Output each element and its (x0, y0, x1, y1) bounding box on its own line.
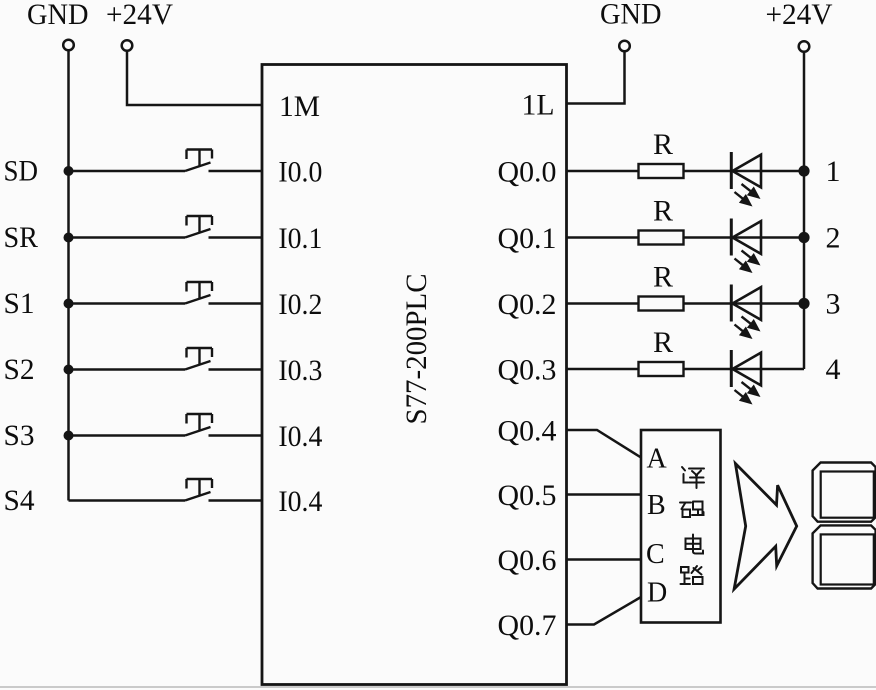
svg-text:1: 1 (826, 155, 841, 188)
label SD (4, 155, 39, 188)
svg-text:Q0.5: Q0.5 (498, 479, 557, 512)
svg-text:S2: S2 (4, 353, 35, 386)
svg-text:S3: S3 (4, 419, 35, 452)
pin label I0.3 (278, 354, 322, 387)
pin label Q0.2 (498, 288, 557, 321)
junction node on +24V rail (row 1) (798, 165, 809, 176)
pin label 1L (522, 89, 555, 122)
svg-text:Q0.7: Q0.7 (498, 609, 557, 642)
decoder label 码 (code) (680, 502, 704, 518)
pin label Q0.1 (498, 222, 557, 255)
resistor R (row 2) (639, 231, 684, 245)
pushbutton S1 (N.O. momentary) (185, 282, 212, 304)
wire SD to pushbutton (69, 170, 186, 173)
block arrow (to display) (734, 464, 797, 590)
wire S3 to pushbutton (69, 434, 186, 437)
svg-text:I0.0: I0.0 (278, 156, 322, 189)
wire S4 to pushbutton (69, 499, 186, 502)
net label 1 (826, 155, 841, 188)
label +24V (left) (106, 0, 173, 31)
svg-text:I0.1: I0.1 (278, 222, 322, 255)
svg-text:+24V: +24V (106, 0, 173, 31)
net label 4 (826, 353, 841, 386)
wire pushbutton to pin I0.4 (209, 499, 263, 502)
terminal +24V left (122, 40, 133, 51)
svg-text:2: 2 (826, 222, 841, 255)
pin label 1M (279, 90, 320, 123)
label S1 (4, 287, 35, 320)
wire resistor through LED to +24V rail (row 2) (684, 236, 805, 239)
svg-text:I0.4: I0.4 (278, 485, 322, 518)
svg-text:3: 3 (826, 288, 841, 321)
resistor R (row 3) (639, 297, 684, 311)
wire pin Q0.6 to decoder input C (567, 558, 642, 561)
value label R (row 4) (653, 326, 673, 359)
pushbutton SD (N.O. momentary) (185, 150, 212, 172)
wire S2 to pushbutton (69, 368, 186, 371)
svg-text:D: D (647, 578, 667, 609)
resistor R (row 4) (639, 362, 684, 376)
svg-text:R: R (653, 195, 673, 228)
label S77-200PLC (vertical) (400, 274, 433, 425)
value label R (row 2) (653, 195, 673, 228)
svg-text:GND: GND (27, 0, 89, 31)
pin label I0.4 (278, 420, 322, 453)
decoder pin label B (647, 490, 666, 521)
wire pushbutton to pin I0.3 (209, 368, 263, 371)
seven-segment display (upper cell) (813, 463, 876, 522)
svg-text:1M: 1M (279, 90, 320, 123)
wire pin Q0.0 to resistor (567, 170, 639, 173)
wire pin Q0.7 to decoder input D (567, 597, 642, 625)
terminal GND right (619, 41, 630, 52)
svg-text:Q0.4: Q0.4 (498, 415, 557, 448)
svg-text:Q0.3: Q0.3 (498, 354, 557, 387)
terminal +24V right (799, 41, 810, 52)
PLC block U1 (S77-200PLC) (262, 65, 567, 685)
junction node S2 on GND rail (64, 365, 74, 375)
terminal GND left (63, 40, 74, 51)
wire pushbutton to pin I0.4 (209, 434, 263, 437)
pushbutton S2 (N.O. momentary) (185, 348, 212, 370)
svg-text:1L: 1L (522, 89, 555, 122)
svg-text:SD: SD (4, 155, 39, 188)
svg-text:C: C (646, 539, 665, 570)
junction node on +24V rail (row 2) (798, 232, 809, 243)
wire pin Q0.2 to resistor (567, 302, 639, 305)
junction node S3 on GND rail (64, 431, 74, 441)
junction node SD on GND rail (64, 166, 74, 176)
pin label Q0.5 (498, 479, 557, 512)
pin label I0.1 (278, 222, 322, 255)
wire pushbutton to pin I0.2 (209, 302, 263, 305)
decoder pin label A (647, 444, 668, 475)
svg-text:4: 4 (826, 353, 841, 386)
LED D1 (731, 152, 761, 207)
svg-text:A: A (647, 444, 668, 475)
svg-text:Q0.2: Q0.2 (498, 288, 557, 321)
label S4 (4, 484, 35, 517)
svg-text:S77-200PLC: S77-200PLC (400, 274, 433, 425)
svg-text:S1: S1 (4, 287, 35, 320)
pin label I0.2 (278, 288, 322, 321)
svg-text:S4: S4 (4, 484, 35, 517)
wire pin Q0.3 to resistor (567, 368, 639, 371)
wire +24V left to pin 1M (127, 51, 262, 105)
wire +24V right rail (vertical) (803, 52, 806, 369)
pin label Q0.7 (498, 609, 557, 642)
svg-text:R: R (653, 261, 673, 294)
resistor R (row 1) (639, 164, 684, 178)
seven-segment display (lower cell) (813, 525, 876, 588)
svg-text:Q0.0: Q0.0 (498, 156, 557, 189)
pin label Q0.6 (498, 544, 557, 577)
value label R (row 3) (653, 261, 673, 294)
svg-text:Q0.1: Q0.1 (498, 222, 557, 255)
pin label Q0.0 (498, 156, 557, 189)
wire pushbutton to pin I0.1 (209, 236, 263, 239)
pushbutton S3 (N.O. momentary) (185, 414, 212, 436)
svg-text:I0.4: I0.4 (278, 420, 322, 453)
pushbutton SR (N.O. momentary) (185, 216, 212, 238)
wire pin 1L to GND right (567, 52, 625, 104)
wire SR to pushbutton (69, 236, 186, 239)
label S3 (4, 419, 35, 452)
pin label I0.0 (278, 156, 322, 189)
wire resistor through LED to +24V rail (row 3) (684, 302, 805, 305)
svg-text:I0.2: I0.2 (278, 288, 322, 321)
label +24V (right) (766, 0, 833, 31)
pin label Q0.4 (498, 415, 557, 448)
decoder label 电 (circuit-1) (686, 535, 704, 554)
svg-text:GND: GND (600, 0, 662, 31)
label SR (4, 221, 39, 254)
LED D2 (731, 219, 761, 274)
net label 2 (826, 222, 841, 255)
wire resistor through LED to +24V rail (row 1) (684, 170, 805, 173)
LED D4 (731, 350, 761, 405)
svg-text:+24V: +24V (766, 0, 833, 31)
junction node SR on GND rail (64, 233, 74, 243)
net label 3 (826, 288, 841, 321)
decoder block U2 (641, 430, 721, 623)
svg-text:B: B (647, 490, 666, 521)
junction node S1 on GND rail (64, 299, 74, 309)
wire resistor through LED to +24V rail (row 4) (684, 368, 805, 371)
pin label Q0.3 (498, 354, 557, 387)
decoder label 译 (decode) (682, 467, 704, 488)
label GND (right) (600, 0, 662, 31)
label GND (left) (27, 0, 89, 31)
pin label I0.4 (278, 485, 322, 518)
wire pushbutton to pin I0.0 (209, 170, 263, 173)
decoder pin label D (647, 578, 667, 609)
svg-text:R: R (653, 326, 673, 359)
svg-text:R: R (653, 128, 673, 161)
value label R (row 1) (653, 128, 673, 161)
decoder pin label C (646, 539, 665, 570)
svg-text:Q0.6: Q0.6 (498, 544, 557, 577)
junction node on +24V rail (row 3) (798, 298, 809, 309)
wire pin Q0.5 to decoder input B (567, 493, 642, 496)
label S2 (4, 353, 35, 386)
svg-text:SR: SR (4, 221, 39, 254)
svg-text:I0.3: I0.3 (278, 354, 322, 387)
wire S1 to pushbutton (69, 302, 186, 305)
decoder label 路 (circuit-2) (681, 566, 703, 584)
wire GND left rail (vertical) (67, 51, 70, 501)
LED D3 (731, 285, 761, 340)
pushbutton S4 (N.O. momentary) (185, 479, 212, 501)
wire pin Q0.1 to resistor (567, 236, 639, 239)
wire pin Q0.4 to decoder input A (567, 430, 642, 458)
